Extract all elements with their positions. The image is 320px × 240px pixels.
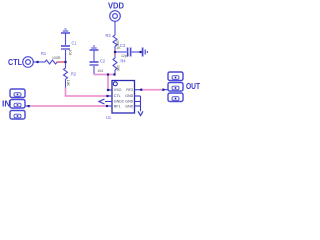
svg-text:100R: 100R bbox=[52, 56, 61, 60]
svg-text:10K: 10K bbox=[116, 40, 120, 47]
svg-text:RF1: RF1 bbox=[114, 105, 121, 109]
svg-text:10K: 10K bbox=[66, 80, 70, 87]
svg-text:U1: U1 bbox=[106, 115, 111, 120]
svg-text:12pF: 12pF bbox=[121, 54, 129, 58]
svg-text:104: 104 bbox=[97, 69, 103, 73]
svg-text:GND2: GND2 bbox=[114, 100, 124, 104]
svg-text:R1: R1 bbox=[41, 51, 46, 56]
svg-text:C2: C2 bbox=[100, 58, 105, 63]
svg-text:R4: R4 bbox=[121, 59, 126, 64]
svg-text:IN: IN bbox=[2, 99, 11, 109]
svg-text:VDD: VDD bbox=[108, 1, 124, 11]
svg-text:104: 104 bbox=[68, 50, 72, 56]
svg-text:CTL: CTL bbox=[8, 57, 22, 67]
svg-text:GND: GND bbox=[125, 94, 133, 98]
svg-text:CTL: CTL bbox=[114, 94, 121, 98]
svg-text:C3: C3 bbox=[120, 43, 125, 48]
svg-text:GND: GND bbox=[125, 100, 133, 104]
svg-text:OUT: OUT bbox=[186, 81, 200, 91]
svg-text:GND: GND bbox=[125, 105, 133, 109]
svg-text:VSO: VSO bbox=[114, 88, 122, 92]
svg-text:1K: 1K bbox=[116, 46, 121, 50]
svg-text:RF2: RF2 bbox=[126, 88, 133, 92]
svg-text:R3: R3 bbox=[106, 33, 111, 38]
svg-text:10K: 10K bbox=[116, 65, 120, 72]
svg-text:R2: R2 bbox=[71, 72, 76, 77]
svg-text:C1: C1 bbox=[72, 40, 77, 45]
